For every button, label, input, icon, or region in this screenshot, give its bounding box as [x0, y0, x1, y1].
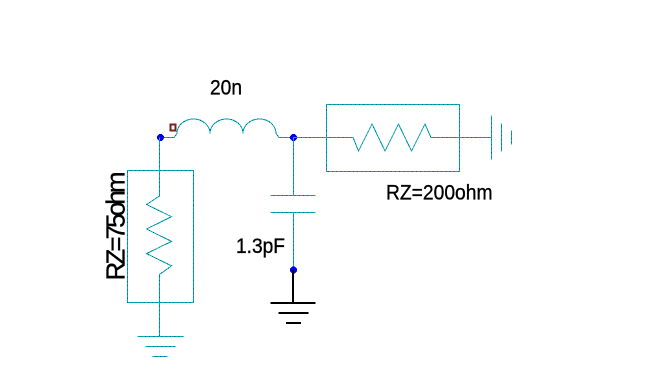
node dot 2: [290, 267, 297, 274]
resistor R2 zigzag: [327, 124, 460, 151]
wire: left node down to R1 box: [159, 138, 161, 171]
wire: R1 box bottom to ground: [159, 303, 161, 337]
ground left (cyan): [138, 337, 184, 357]
wire black: node dot 2 to ground: [292, 270, 294, 303]
resistor R1 box: [128, 171, 194, 303]
port marker o: [170, 124, 177, 132]
wire: right node to R2 box: [294, 137, 327, 139]
wire: right node down to capacitor: [293, 138, 295, 196]
ground black (under capacitor): [271, 303, 316, 323]
resistor R1 zigzag: [147, 171, 172, 303]
node dot right: [290, 134, 297, 141]
resistor R2 box: [327, 105, 460, 172]
wire: capacitor bottom to node dot 2: [293, 213, 295, 271]
ground right (rotated, cyan): [492, 116, 512, 160]
svg-text:RZ=200ohm: RZ=200ohm: [386, 181, 493, 205]
inductor L1: [161, 119, 294, 138]
svg-text:RZ=75ohm: RZ=75ohm: [101, 172, 131, 281]
node dot left: [157, 134, 164, 141]
capacitor C1 plates: [271, 196, 316, 213]
svg-text:1.3pF: 1.3pF: [236, 234, 285, 258]
wire: R2 box to right ground: [460, 137, 492, 139]
svg-text:20n: 20n: [210, 76, 242, 100]
